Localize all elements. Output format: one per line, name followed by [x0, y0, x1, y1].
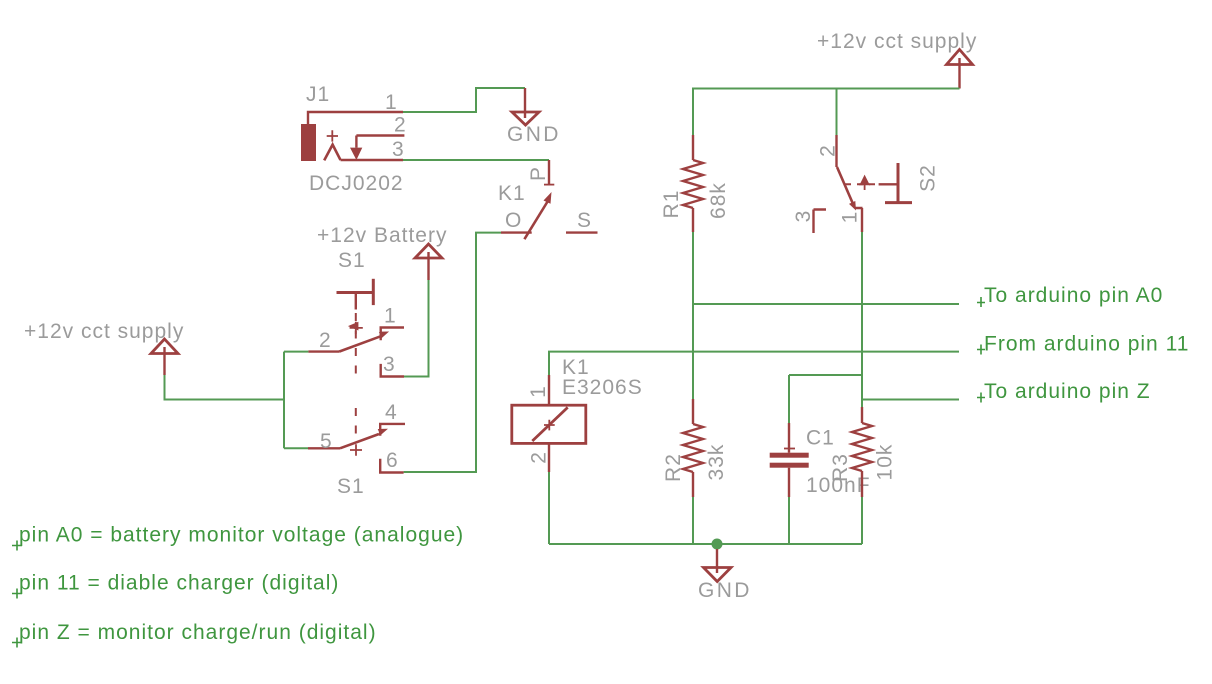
wire R1 bottom to R2 top [692, 232, 694, 399]
svg-text:4: 4 [385, 401, 398, 424]
wire from arduino pin 11 [549, 352, 959, 375]
svg-text:P: P [527, 166, 550, 181]
wire left supply to S1 pins 2,5 [165, 375, 285, 400]
resistor R2 33k [683, 399, 703, 497]
note pin 11 [12, 589, 22, 599]
svg-text:From arduino pin 11: From arduino pin 11 [984, 333, 1189, 356]
wire S1 pole rail [284, 352, 308, 449]
svg-text:33k: 33k [705, 444, 728, 481]
svg-text:10k: 10k [874, 444, 897, 481]
svg-text:+12v cct supply: +12v cct supply [24, 320, 184, 343]
svg-text:To arduino pin Z: To arduino pin Z [984, 380, 1151, 403]
svg-text:68k: 68k [707, 182, 730, 219]
svg-text:J1: J1 [306, 83, 330, 106]
switch S1 upper half [308, 279, 404, 377]
svg-text:S1: S1 [338, 249, 366, 272]
svg-text:+12v cct supply: +12v cct supply [817, 30, 977, 53]
svg-text:To arduino pin A0: To arduino pin A0 [984, 284, 1163, 307]
svg-text:+12v Battery: +12v Battery [317, 224, 447, 247]
capacitor C1 100nF [770, 423, 809, 497]
svg-text:R2: R2 [662, 453, 685, 482]
svg-text:S2: S2 [917, 164, 940, 192]
svg-text:3: 3 [383, 353, 396, 376]
relay contact K1 [501, 160, 598, 239]
svg-text:1: 1 [384, 305, 397, 328]
svg-text:C1: C1 [806, 427, 835, 450]
svg-text:2: 2 [394, 114, 407, 137]
wire J1 pin1 to GND [403, 88, 525, 112]
svg-text:pin Z = monitor charge/run (di: pin Z = monitor charge/run (digital) [19, 621, 377, 644]
svg-text:DCJ0202: DCJ0202 [309, 172, 404, 195]
svg-text:6: 6 [386, 449, 399, 472]
wire to arduino pin Z [862, 399, 959, 401]
svg-text:R3: R3 [829, 453, 852, 482]
svg-text:1: 1 [839, 211, 862, 224]
resistor R3 10k [852, 407, 872, 497]
svg-text:K1: K1 [498, 182, 526, 205]
wire S2 pin1 down to R3 [861, 232, 863, 407]
svg-text:2: 2 [817, 144, 840, 157]
junction dot [712, 539, 723, 550]
relay coil K1 E3206S [512, 375, 586, 472]
wire J1 pin3 to K1 P [403, 159, 549, 161]
svg-text:O: O [505, 209, 522, 232]
svg-text:1: 1 [385, 91, 398, 114]
supply +12v cct supply top right [947, 50, 973, 89]
supply +12v Battery [415, 244, 442, 280]
net label To arduino pin A0 [977, 297, 985, 307]
wire bottom rail [549, 472, 862, 544]
net label To arduino pin Z [977, 393, 985, 403]
resistor R1 68k [683, 135, 703, 232]
svg-text:GND: GND [698, 579, 752, 602]
svg-text:2: 2 [527, 451, 550, 464]
svg-text:S: S [577, 209, 592, 232]
switch S1 lower half [308, 408, 405, 473]
svg-text:3: 3 [392, 138, 405, 161]
note pin A0 [12, 541, 22, 551]
wire battery arrow to S1 pin3 [403, 280, 429, 377]
svg-text:3: 3 [792, 210, 815, 223]
svg-text:E3206S: E3206S [562, 376, 643, 399]
ground GND top [512, 88, 539, 125]
svg-text:5: 5 [320, 430, 333, 453]
wire top rail [693, 89, 960, 136]
svg-text:R1: R1 [660, 190, 683, 219]
wire to arduino pin A0 [693, 303, 959, 305]
wire K1 O to S1 pin6 [404, 233, 501, 472]
supply +12v cct supply left [151, 339, 178, 375]
svg-text:pin 11 = diable charger (digit: pin 11 = diable charger (digital) [19, 572, 339, 595]
svg-text:GND: GND [507, 123, 561, 146]
net label From arduino pin 11 [977, 345, 985, 355]
svg-text:1: 1 [527, 385, 550, 398]
svg-text:pin A0 = battery monitor volta: pin A0 = battery monitor voltage (analog… [19, 524, 464, 547]
switch S2 [814, 135, 913, 233]
wire C1 top link [789, 375, 862, 423]
svg-text:2: 2 [319, 329, 332, 352]
connector J1 [301, 112, 404, 161]
svg-text:S1: S1 [337, 475, 365, 498]
note pin Z [12, 638, 22, 648]
ground GND bottom [704, 549, 732, 582]
